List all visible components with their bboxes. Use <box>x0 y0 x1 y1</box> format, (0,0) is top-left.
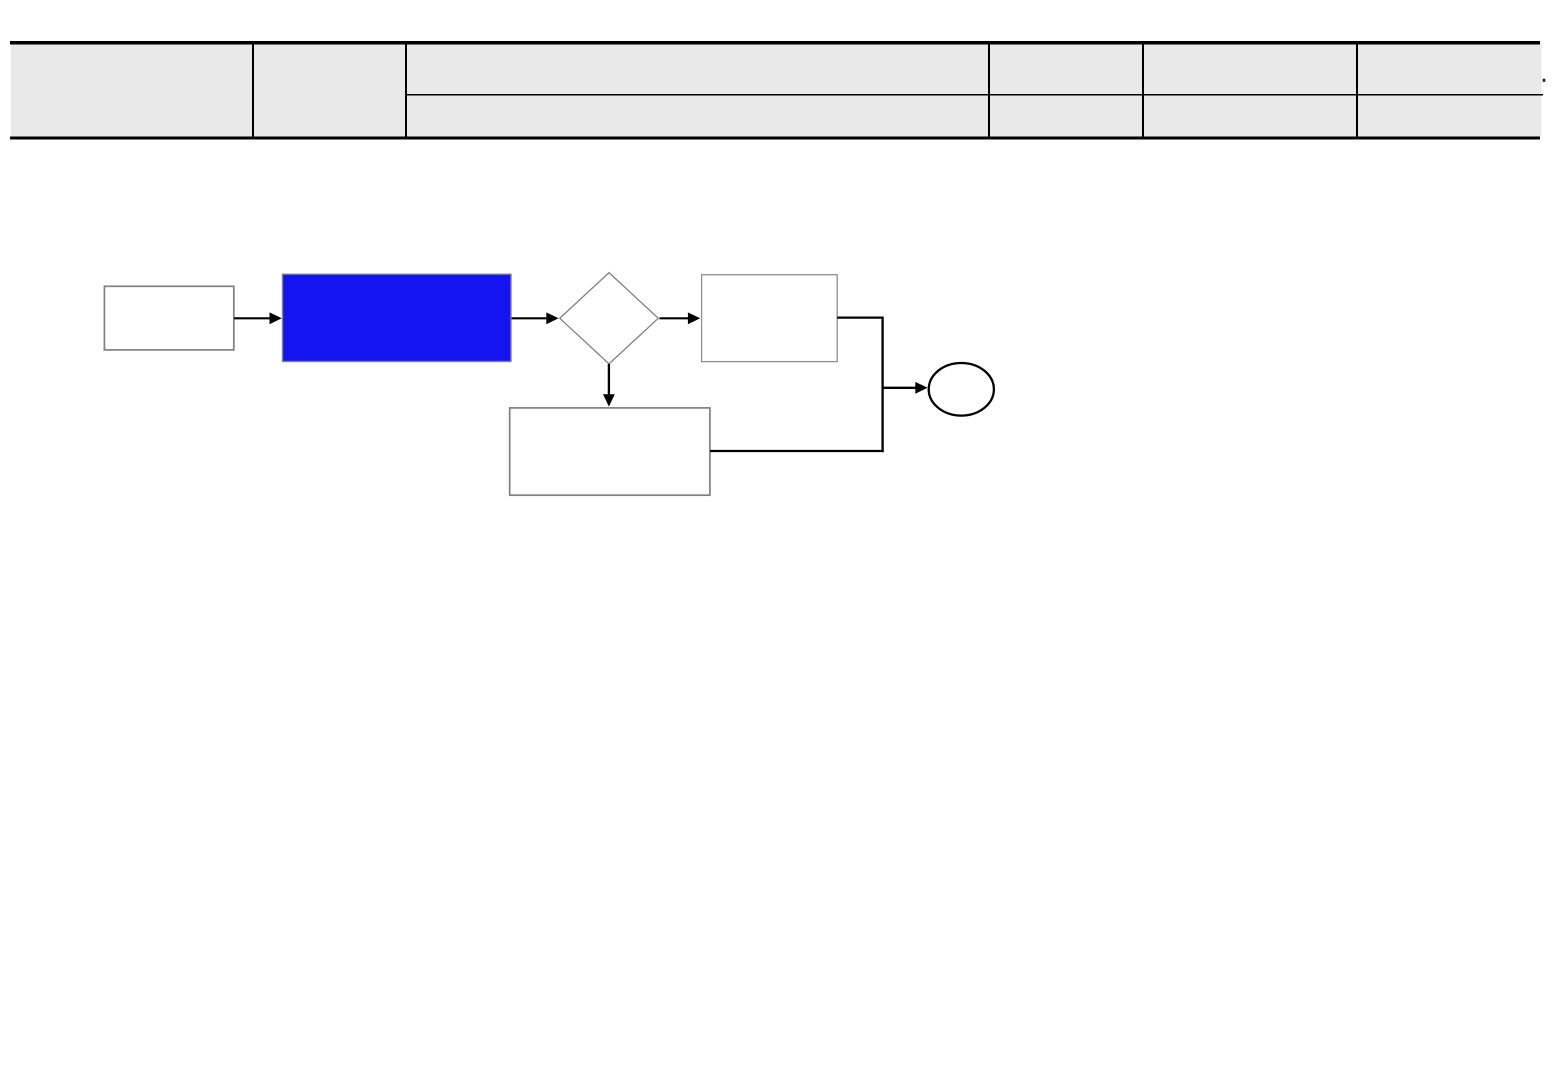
stray period dot right of table <box>1543 79 1546 82</box>
terminator ellipse (end) <box>929 363 994 416</box>
process box 1 (start step) <box>104 286 233 350</box>
connector: box 4 right to junction <box>710 450 884 452</box>
decision diamond <box>560 273 659 364</box>
process box 4 (below diamond) <box>510 408 710 495</box>
connector: box 3 right, then down to junction <box>837 318 882 453</box>
arrow 5: junction to terminator circle <box>883 382 928 394</box>
header table top border <box>10 41 1540 44</box>
header table vertical divider col1/col2 <box>252 42 254 139</box>
arrow 1: box1 to blue box <box>234 312 282 324</box>
header table fill <box>11 43 1542 137</box>
header table vertical divider col3/col4 <box>988 42 990 139</box>
header table middle horizontal divider (right section) <box>406 94 1544 96</box>
header table bottom border <box>10 137 1540 140</box>
arrow 4: diamond down to box 4 <box>603 364 615 407</box>
blue process box 2 <box>283 274 512 361</box>
header table vertical divider col4/col5 <box>1142 42 1144 139</box>
header table vertical divider col5/col6 <box>1356 42 1358 139</box>
header table vertical divider col2/col3 <box>405 42 407 139</box>
arrow 2: blue box to diamond <box>512 312 559 324</box>
arrow 3: diamond to box 3 <box>660 312 701 324</box>
process box 3 (top right) <box>702 275 838 362</box>
